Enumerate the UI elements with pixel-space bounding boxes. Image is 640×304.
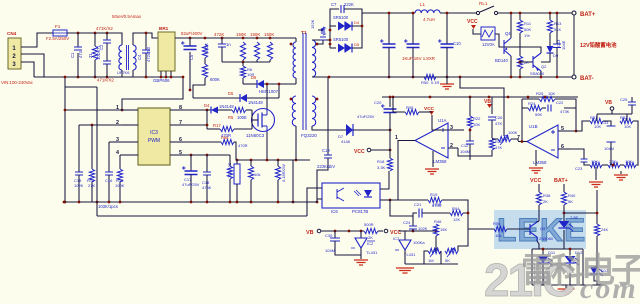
wire left column	[64, 77, 66, 202]
wire	[236, 160, 238, 164]
wire	[469, 144, 471, 156]
svg-text:R46: R46	[434, 219, 442, 224]
svg-text:VCC: VCC	[354, 149, 365, 155]
wire	[440, 251, 442, 264]
resistor R34 27K	[608, 162, 620, 167]
node	[295, 159, 298, 162]
svg-text:D6: D6	[251, 75, 257, 80]
resistor 150K	[254, 42, 259, 60]
wire	[563, 205, 565, 222]
svg-text:472/250: 472/250	[146, 46, 151, 62]
node	[459, 76, 462, 79]
svg-text:470R: 470R	[238, 143, 248, 148]
wire Q1 source	[266, 132, 268, 160]
transformer T1 core	[303, 33, 306, 130]
electrolytic capacitor C5	[184, 46, 197, 50]
node	[388, 76, 391, 79]
wire	[570, 108, 576, 131]
wire	[542, 249, 544, 255]
wire	[412, 48, 414, 78]
ground LED	[558, 289, 575, 294]
wire	[334, 231, 336, 238]
node	[596, 212, 599, 215]
wire	[538, 186, 540, 192]
resistor R06b 15K	[433, 224, 438, 236]
wire	[317, 158, 328, 202]
diode D4b	[345, 22, 352, 31]
resistor R88 470R	[221, 139, 234, 144]
wire	[327, 77, 329, 155]
svg-text:1M: 1M	[428, 258, 434, 263]
svg-text:5K: 5K	[445, 258, 450, 263]
svg-text:C7: C7	[331, 2, 337, 7]
node	[429, 96, 432, 99]
wire pin1 row	[65, 109, 122, 111]
wire VB divider rail	[597, 113, 632, 115]
svg-text:R13: R13	[554, 21, 562, 26]
node VCC U1A	[429, 111, 434, 115]
wire	[360, 231, 362, 238]
capacitor C26 47K	[488, 117, 496, 120]
node	[94, 76, 97, 79]
svg-text:27K: 27K	[88, 183, 95, 188]
wire choke to bridge top	[133, 33, 158, 45]
svg-text:47K: 47K	[495, 145, 502, 150]
capacitor C33 104M	[607, 126, 616, 142]
node	[119, 201, 122, 204]
resistor R05	[405, 109, 419, 114]
node	[77, 76, 80, 79]
resistor R13 100K	[117, 169, 122, 182]
wire	[596, 114, 598, 118]
capacitor C23	[581, 159, 588, 162]
resistor R2 600K	[202, 64, 207, 78]
bridge rectifier BR1	[158, 32, 175, 71]
LED D12	[565, 256, 576, 263]
svg-text:474: 474	[78, 50, 83, 58]
svg-text:C22: C22	[556, 100, 564, 105]
svg-text:100K: 100K	[115, 183, 125, 188]
svg-text:472K: 472K	[214, 32, 224, 37]
svg-text:BAT+: BAT+	[554, 178, 568, 184]
wire	[470, 150, 492, 156]
wire LED bottom rail	[532, 284, 604, 286]
svg-text:0.18R/2W: 0.18R/2W	[281, 164, 286, 182]
svg-text:104M: 104M	[604, 146, 614, 151]
wire	[594, 261, 597, 267]
wire	[424, 251, 428, 264]
transistor Q4 BD140	[504, 38, 511, 56]
capacitor C13 104E	[553, 44, 561, 48]
wire pin6 row	[170, 141, 221, 143]
svg-text:10k: 10k	[254, 172, 260, 177]
svg-text:102K: 102K	[74, 183, 84, 188]
wire CN4 pin1 to fuse	[21, 33, 53, 47]
node	[64, 201, 67, 204]
wire battery	[573, 15, 575, 75]
wire	[576, 121, 590, 131]
svg-text:1%: 1%	[524, 33, 530, 38]
node	[510, 12, 513, 15]
resistor R31 10K	[590, 118, 603, 123]
wire LED top rail	[532, 248, 583, 250]
node	[94, 32, 97, 35]
wire	[538, 184, 540, 186]
wire CN4 pin2	[21, 54, 44, 77]
wire gate node	[251, 110, 253, 129]
wire	[458, 231, 468, 251]
ground U1B	[529, 168, 543, 173]
phase dot	[290, 43, 293, 46]
wire clamp join	[222, 61, 270, 63]
svg-text:150K: 150K	[236, 32, 246, 37]
relay contact RL1	[476, 11, 479, 14]
wire	[108, 142, 110, 172]
svg-text:R5: R5	[228, 115, 234, 120]
capacitor C22 473K	[548, 105, 551, 112]
node	[328, 76, 331, 79]
svg-text:152K: 152K	[310, 19, 315, 29]
wire	[435, 244, 437, 251]
wire	[246, 109, 252, 111]
svg-text:VCC: VCC	[467, 19, 478, 25]
svg-text:TL431: TL431	[404, 252, 416, 257]
wire	[78, 125, 80, 172]
wire	[555, 99, 576, 108]
wire	[519, 33, 521, 56]
wire	[542, 264, 544, 285]
varistor Z1	[92, 46, 97, 60]
wire U1A in-	[448, 147, 458, 149]
ground U1A	[425, 169, 439, 174]
electrolytic capacitor C8	[383, 44, 396, 48]
electrolytic capacitor C17	[185, 171, 198, 175]
capacitor C24 102K	[409, 226, 417, 229]
svg-text:VB: VB	[306, 230, 314, 236]
svg-text:D5: D5	[228, 91, 234, 96]
wire	[569, 249, 571, 255]
wire pin7 row	[170, 124, 207, 126]
node	[277, 201, 280, 204]
wire	[521, 108, 523, 142]
wire pin 3	[122, 141, 138, 143]
wire	[413, 230, 436, 232]
opto LED	[364, 190, 372, 197]
wire	[412, 13, 414, 44]
wire	[633, 121, 638, 150]
wire	[247, 97, 279, 99]
svg-text:F2.5A/250V: F2.5A/250V	[46, 36, 69, 41]
wire	[556, 13, 558, 44]
wire	[535, 150, 537, 166]
wire	[563, 186, 565, 192]
trimmer R27 100K	[498, 136, 511, 141]
svg-text:VB: VB	[605, 100, 612, 106]
wire	[595, 167, 597, 180]
diode D6 HER1007	[257, 80, 264, 88]
svg-text:1n: 1n	[226, 42, 231, 47]
wire	[193, 97, 240, 99]
svg-text:8: 8	[179, 105, 182, 111]
wire	[537, 221, 539, 222]
wire	[636, 150, 638, 165]
svg-text:IC7: IC7	[393, 236, 400, 241]
wire	[620, 164, 624, 166]
svg-text:C20: C20	[374, 100, 382, 105]
node	[190, 201, 193, 204]
resistor R7 10E	[234, 164, 240, 184]
wire	[432, 123, 448, 130]
svg-text:473K: 473K	[560, 109, 570, 114]
transformer T1 aux winding	[292, 96, 296, 126]
svg-text:473K: 473K	[202, 185, 212, 190]
wire U1A in+	[448, 129, 464, 131]
node	[519, 12, 522, 15]
wire	[269, 60, 271, 62]
node	[527, 96, 530, 99]
wire output rail left	[362, 12, 415, 14]
ground TL431	[354, 260, 368, 265]
node	[412, 76, 415, 79]
svg-text:470R: 470R	[432, 202, 442, 207]
terminal VB	[317, 229, 321, 233]
wire	[435, 236, 437, 244]
svg-text:7: 7	[179, 120, 182, 126]
svg-text:R56: R56	[493, 221, 501, 226]
wire	[491, 97, 493, 114]
node	[361, 25, 364, 28]
svg-text:1N4148: 1N4148	[248, 100, 263, 105]
wire	[610, 160, 612, 165]
resistor R38 2K	[536, 192, 541, 205]
svg-text:10K: 10K	[625, 159, 632, 164]
node	[469, 96, 472, 99]
svg-text:SR5100: SR5100	[333, 37, 349, 42]
wire feedback to reference	[390, 200, 413, 218]
svg-text:D4: D4	[204, 103, 210, 108]
svg-text:12V0A: 12V0A	[482, 42, 495, 47]
capacitor C21 470R	[419, 209, 422, 218]
resistor R14 27K	[89, 169, 94, 182]
wire sense to control	[460, 77, 504, 97]
electrolytic capacitor C20	[384, 109, 397, 113]
svg-text:59K: 59K	[535, 112, 542, 117]
svg-text:150K: 150K	[264, 32, 274, 37]
wire	[295, 38, 297, 42]
wire Q1 gate	[252, 119, 258, 121]
op-amp U1A LM358	[415, 123, 448, 158]
svg-text:10k: 10k	[495, 233, 501, 238]
diode D4 SR5100	[338, 22, 345, 31]
LED D13 arrows	[599, 269, 603, 276]
node	[229, 201, 232, 204]
wire	[626, 114, 628, 118]
capacitor C19	[324, 155, 332, 158]
resistor R10 10k	[248, 166, 253, 180]
wire	[91, 182, 93, 202]
svg-text:C25: C25	[620, 97, 628, 102]
wire opto out bottom	[380, 199, 390, 201]
svg-text:102K: 102K	[418, 226, 428, 231]
node	[488, 96, 491, 99]
svg-text:BD140: BD140	[495, 58, 508, 63]
wire	[119, 155, 121, 169]
svg-text:L1: L1	[420, 2, 426, 7]
resistor R35 10K	[624, 162, 636, 167]
resistor R24 59K	[528, 105, 542, 110]
wire	[242, 60, 244, 62]
wire	[556, 48, 558, 78]
wire	[190, 155, 192, 171]
wire sense return	[292, 160, 294, 202]
node	[206, 109, 209, 112]
node	[206, 124, 209, 127]
node	[329, 29, 332, 32]
node	[250, 159, 253, 162]
wire feedback rail	[97, 215, 307, 217]
svg-text:C33: C33	[601, 120, 609, 125]
wire	[596, 190, 598, 224]
ground divider	[614, 175, 628, 180]
svg-text:2N5060: 2N5060	[539, 236, 554, 241]
svg-text:471K/X2: 471K/X2	[97, 78, 114, 83]
wire	[596, 118, 598, 121]
svg-text:PWM: PWM	[148, 138, 160, 144]
wire aux out	[312, 126, 346, 130]
wire	[371, 149, 390, 151]
wire	[207, 128, 220, 130]
svg-text:104M: 104M	[325, 248, 335, 253]
svg-text:50K: 50K	[524, 27, 531, 32]
wire VB rail	[321, 230, 364, 232]
wire	[243, 83, 257, 85]
wire	[218, 109, 232, 111]
svg-text:500R: 500R	[364, 222, 374, 227]
svg-text:24K: 24K	[601, 227, 608, 232]
wire pin 2	[122, 124, 138, 126]
svg-text:RL1: RL1	[479, 1, 488, 6]
wire	[119, 182, 121, 202]
zener diode D9	[547, 46, 554, 53]
connector CN4	[8, 38, 21, 69]
node	[329, 39, 332, 42]
wire bottom bus	[405, 263, 458, 265]
wire primary bottom	[295, 78, 297, 84]
watermark box	[494, 210, 586, 249]
svg-text:Q4: Q4	[505, 31, 511, 36]
wire pin 5	[170, 154, 185, 156]
wire output rail mid	[440, 12, 476, 14]
diode D5 1N4148	[240, 94, 247, 102]
node	[189, 37, 192, 40]
resistor R22 10K	[467, 116, 472, 128]
node	[206, 154, 209, 157]
node	[389, 96, 392, 99]
wire	[190, 175, 192, 203]
resistor R32 10K	[620, 118, 633, 123]
svg-text:Q2: Q2	[541, 64, 547, 69]
svg-text:UF7K6: UF7K6	[117, 70, 130, 75]
node	[446, 12, 449, 15]
svg-text:7.5E: 7.5E	[570, 215, 579, 220]
wire	[388, 13, 390, 44]
wire	[492, 138, 498, 140]
node	[329, 43, 332, 46]
svg-text:5: 5	[561, 126, 564, 132]
wire Q4 emitter	[510, 56, 512, 77]
LED D13	[590, 267, 598, 274]
wire	[236, 184, 238, 202]
inductor L1 4.7uH	[415, 10, 440, 13]
svg-text:D4: D4	[354, 20, 360, 25]
wire	[446, 77, 448, 84]
svg-text:CN4: CN4	[7, 31, 17, 36]
LED D08 arrows	[569, 224, 573, 231]
node	[316, 201, 319, 204]
wire opto in bottom	[317, 199, 322, 202]
resistor R8 0.18R/2W	[275, 166, 280, 180]
node	[510, 76, 513, 79]
wire bridge negative return	[122, 77, 183, 110]
wire secondary ground rail	[312, 76, 572, 78]
trimmer arrow 2	[447, 248, 454, 257]
svg-text:C12: C12	[461, 143, 469, 148]
svg-text:U1B: U1B	[529, 124, 538, 129]
svg-text:50uH/0.5Amax: 50uH/0.5Amax	[112, 14, 142, 19]
wire	[549, 13, 551, 20]
wire	[389, 97, 391, 107]
optocoupler IC6 PC817B	[322, 183, 380, 208]
node	[278, 83, 281, 86]
resistor R18 3.3K	[387, 158, 392, 171]
wire	[507, 228, 530, 230]
node	[549, 12, 552, 15]
wire	[330, 25, 336, 27]
wire	[563, 184, 565, 186]
wire AC bottom rail	[34, 76, 183, 78]
capacitor C16	[105, 172, 113, 175]
wire rect join	[352, 26, 362, 48]
svg-text:R22: R22	[473, 116, 481, 121]
wire Q2 collector to Q4 base	[504, 47, 541, 53]
resistor R12 2K	[517, 56, 522, 69]
node	[556, 76, 559, 79]
choke L3 winding A	[119, 45, 122, 70]
wire	[91, 125, 93, 169]
svg-text:Z1: Z1	[88, 52, 93, 58]
wire	[389, 113, 391, 131]
wire	[229, 155, 231, 166]
node	[435, 230, 438, 233]
svg-text:R19: R19	[430, 192, 438, 197]
node	[106, 76, 109, 79]
svg-text:D9: D9	[553, 53, 559, 58]
terminal VCC	[384, 229, 388, 233]
wire	[94, 60, 96, 77]
wire	[108, 175, 110, 202]
wire	[626, 118, 628, 121]
wire	[564, 212, 597, 214]
svg-text:R18: R18	[377, 159, 385, 164]
wire	[277, 160, 279, 166]
wire	[264, 83, 296, 85]
capacitor C18	[203, 172, 211, 175]
svg-text:R04: R04	[452, 206, 460, 211]
svg-text:10K: 10K	[591, 159, 598, 164]
LED D12 arrows	[575, 258, 579, 265]
svg-text:6: 6	[561, 144, 564, 150]
wire	[318, 29, 323, 31]
